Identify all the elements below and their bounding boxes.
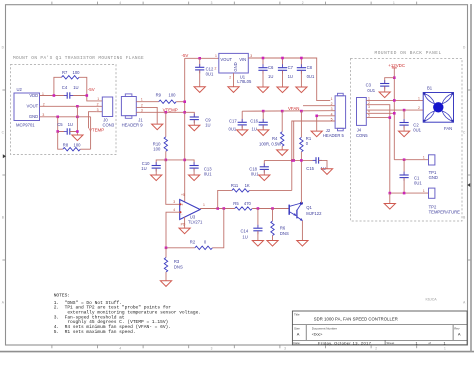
svg-text:1: 1 [331, 97, 333, 101]
svg-text:1U: 1U [252, 126, 257, 131]
wire R11 right leg to node [291, 160, 293, 190]
svg-text:2: 2 [97, 103, 99, 107]
svg-text:GND: GND [29, 114, 38, 119]
ground (C12) [194, 87, 205, 93]
regulator U1 L78L05 [219, 53, 252, 84]
svg-text:Size: Size [294, 327, 300, 331]
wire -5V vertical bus [184, 58, 186, 201]
resistor R7 [54, 76, 87, 96]
svg-text:C3: C3 [366, 82, 372, 87]
dashed box: back panel area [351, 58, 462, 221]
svg-text:MCP9701: MCP9701 [16, 123, 35, 128]
ground (C15) [321, 169, 332, 175]
svg-text:K6JCA: K6JCA [426, 298, 438, 302]
svg-text:1: 1 [423, 189, 425, 193]
capacitor C5 [58, 106, 78, 135]
ground (C16) [258, 130, 269, 136]
capacitor C12 [195, 58, 204, 86]
svg-text:Title: Title [294, 313, 300, 317]
transistor Q1 MJF122 [289, 202, 303, 221]
capacitor C2 [400, 110, 409, 131]
page edge shadow lines [0, 351, 474, 353]
svg-text:VOUT: VOUT [27, 104, 39, 109]
svg-text:R2: R2 [190, 240, 196, 245]
svg-text:3: 3 [97, 108, 99, 112]
svg-text:TLV271: TLV271 [188, 220, 203, 225]
ground (R6) [267, 241, 278, 247]
connector J2 HEADER 5 [323, 93, 346, 138]
ground (C10) [151, 175, 162, 181]
ground (back panel) [384, 204, 395, 210]
svg-text:VFAN: VFAN [288, 106, 299, 111]
svg-text:<Doc>: <Doc> [312, 332, 323, 336]
svg-text:Rev: Rev [454, 327, 460, 331]
junction C14 [257, 207, 260, 210]
svg-text:1: 1 [416, 341, 418, 345]
svg-text:Q1: Q1 [306, 205, 312, 210]
capacitor C7 [278, 58, 287, 87]
wire -5V rail left [185, 57, 219, 59]
capacitor C10 [152, 160, 166, 175]
svg-text:100: 100 [169, 92, 177, 97]
svg-text:B: B [2, 216, 4, 220]
svg-text:DNS: DNS [174, 264, 183, 269]
svg-text:B1: B1 [427, 86, 433, 91]
resistor R3 DNS [164, 248, 167, 281]
svg-text:R7: R7 [62, 70, 68, 75]
wire R10 column to op-amp input [166, 160, 180, 204]
capacitor C16 [259, 110, 268, 130]
svg-text:470: 470 [244, 201, 252, 206]
svg-text:4: 4 [173, 208, 175, 212]
svg-text:C6: C6 [268, 65, 274, 70]
svg-text:NOTES:: NOTES: [54, 293, 70, 299]
ground (C3) [379, 92, 390, 98]
resistor R11 feedback [218, 189, 292, 209]
ground (C6) [257, 87, 268, 93]
capacitor C1 [400, 160, 409, 193]
svg-text:of: of [429, 341, 432, 345]
svg-text:2: 2 [141, 104, 143, 108]
wire CON5 pin4 stub [366, 112, 394, 114]
svg-text:2: 2 [418, 106, 420, 110]
svg-text:2: 2 [215, 67, 217, 71]
svg-text:5. R1 sets maximum fan speed.: 5. R1 sets maximum fan speed. [54, 329, 136, 335]
wire op-amp inv input [166, 212, 180, 248]
ground (U3) [179, 228, 190, 234]
svg-text:C4: C4 [62, 85, 68, 90]
resistor R10 [164, 111, 167, 160]
connector J1 HEADER 9 [121, 94, 143, 127]
svg-text:-5V: -5V [88, 87, 95, 92]
svg-text:1U: 1U [288, 74, 293, 79]
IC U2 MCP9701 [14, 87, 40, 128]
capacitor C9 [185, 112, 199, 125]
svg-text:HEADER 5: HEADER 5 [323, 133, 345, 138]
svg-text:0U1: 0U1 [251, 172, 259, 177]
svg-text:CON5: CON5 [356, 133, 368, 138]
capacitor C8 [297, 58, 306, 87]
wire CON5 pin1 to fan pin1 [366, 99, 423, 101]
wire U2 pin1 row [40, 95, 68, 97]
notes text block [54, 293, 201, 336]
wire CON5 pin2 corner down [366, 105, 390, 193]
test point TP1 [429, 155, 438, 180]
ground (C13) [189, 175, 200, 181]
op-amp power-down pin stub + ground [184, 217, 186, 228]
wire TP1 row [394, 159, 428, 161]
svg-text:R6: R6 [280, 226, 286, 231]
svg-text:A: A [458, 331, 461, 336]
ground (C14) [252, 241, 263, 247]
svg-text:5: 5 [368, 114, 370, 118]
wire J1 pin1 to R9 [136, 101, 158, 103]
title block [292, 311, 467, 345]
connector J0 CON3 [102, 97, 115, 127]
svg-text:3: 3 [173, 200, 175, 204]
wire Q1 emitter to ground [301, 221, 303, 241]
svg-text:C5: C5 [57, 122, 63, 127]
svg-text:HEADER 9: HEADER 9 [122, 122, 144, 127]
capacitor C4 [64, 92, 73, 98]
wire J2 pin3 stub [330, 110, 335, 112]
svg-text:VIN: VIN [239, 57, 246, 62]
wire R10 junction row to bus [166, 159, 185, 161]
svg-text:VTEMP: VTEMP [89, 128, 104, 133]
fan B1 [423, 93, 453, 123]
resistor R2 [166, 209, 224, 250]
resistor R9 [159, 100, 177, 103]
junction R9/bus [183, 100, 186, 103]
svg-text:3: 3 [284, 347, 286, 351]
svg-text:GND: GND [233, 62, 238, 71]
svg-text:DNS: DNS [280, 231, 289, 236]
svg-text:0U1: 0U1 [414, 181, 422, 186]
ground (R4) [277, 150, 288, 156]
capacitor C13 [185, 160, 199, 175]
capacitor C14 [253, 209, 262, 241]
wire to bottom ground [389, 193, 391, 203]
svg-text:R8: R8 [63, 143, 69, 148]
svg-text:2: 2 [375, 347, 377, 351]
resistor R6 DNS [271, 209, 274, 241]
capacitor C17 [238, 111, 247, 130]
junction dots row1 [53, 94, 56, 97]
wire VFAN- node row [264, 159, 316, 161]
svg-text:C17: C17 [229, 118, 237, 123]
resistor R4 [281, 110, 284, 150]
svg-text:0U1: 0U1 [307, 74, 315, 79]
svg-text:3: 3 [141, 108, 143, 112]
ground (J1 pin2) [152, 124, 163, 130]
svg-text:1U: 1U [68, 122, 73, 127]
junction R6 [271, 207, 274, 210]
ground (C8) [296, 87, 307, 93]
svg-text:0U1: 0U1 [413, 128, 421, 133]
svg-text:+5: +5 [181, 193, 185, 197]
svg-text:1: 1 [97, 97, 99, 101]
svg-text:0U1: 0U1 [229, 126, 237, 131]
svg-text:C14: C14 [241, 228, 249, 233]
wire J2 pin4 to ground [317, 116, 335, 131]
svg-text:3: 3 [211, 347, 213, 351]
svg-text:+12VDC: +12VDC [388, 63, 405, 68]
svg-text:Date:: Date: [293, 341, 300, 345]
svg-text:A: A [297, 331, 300, 336]
svg-text:1: 1 [203, 203, 205, 207]
wire U2 pin2 row to CON3 pin2 [40, 105, 103, 107]
svg-text:U3: U3 [190, 214, 196, 219]
svg-text:1U: 1U [205, 122, 210, 127]
svg-text:VOUT: VOUT [220, 57, 232, 62]
svg-text:CON3: CON3 [103, 122, 115, 127]
svg-text:100: 100 [73, 70, 81, 75]
ground (Q1) [297, 241, 308, 247]
svg-text:1U: 1U [242, 234, 247, 239]
svg-text:U2: U2 [17, 87, 23, 92]
resistor R5 [235, 207, 253, 210]
svg-text:100: 100 [153, 146, 161, 151]
ground (C18) [259, 175, 270, 181]
op-amp U3 TLV271 [180, 200, 203, 225]
svg-text:R9: R9 [156, 92, 162, 97]
wire J1 pin3 VTEMP row to bus [136, 111, 184, 113]
capacitor C18 [260, 160, 269, 174]
junction VTEMP/bus [183, 111, 186, 114]
svg-text:3: 3 [211, 1, 213, 5]
svg-text:Sheet: Sheet [386, 341, 394, 345]
wire CON5 pin5 stub [366, 117, 390, 119]
svg-text:R4: R4 [272, 136, 278, 141]
capacitor C3 [380, 78, 394, 92]
svg-text:4: 4 [119, 1, 121, 5]
ground (J2) [311, 131, 322, 137]
svg-text:L78L05: L78L05 [237, 79, 252, 84]
svg-text:2: 2 [302, 1, 304, 5]
wire U1 GND pin to ground [233, 73, 235, 87]
connector J4 CON5 [356, 98, 368, 138]
svg-text:C16: C16 [250, 118, 258, 123]
svg-text:PD: PD [181, 223, 186, 227]
svg-text:100R, 0.5W: 100R, 0.5W [259, 142, 281, 147]
dashed box: sensor mounting area [11, 65, 117, 155]
wire J2 pin5 to VFAN- node [292, 121, 335, 160]
svg-text:1: 1 [215, 54, 217, 58]
resistor R1 [300, 110, 303, 161]
svg-text:1: 1 [418, 96, 420, 100]
svg-text:MOUNT ON PA'S Q1 TRANSISTOR MO: MOUNT ON PA'S Q1 TRANSISTOR MOUNTING FLA… [13, 56, 144, 61]
svg-text:1: 1 [393, 1, 395, 5]
svg-text:C8: C8 [307, 65, 313, 70]
ground (C2) [399, 131, 410, 137]
ground (U1) [228, 87, 239, 93]
wire J2 pin2 feeder [303, 105, 335, 107]
wire +12VDC vertical [393, 68, 395, 160]
wire rail U1 VIN to J2 pin1 [248, 58, 330, 101]
svg-text:-5V: -5V [182, 53, 189, 58]
svg-text:1U: 1U [73, 85, 78, 90]
capacitor C15 [313, 157, 327, 168]
svg-text:MOUNTED ON BACK PANEL: MOUNTED ON BACK PANEL [375, 51, 442, 56]
svg-text:B: B [463, 216, 465, 220]
svg-text:GND: GND [429, 175, 438, 180]
wire Q1 collector [300, 160, 302, 203]
wire J1 pin2 to ground [136, 107, 157, 124]
wire jog to CON3 pin1 [87, 96, 103, 101]
capacitor C6 [258, 58, 267, 87]
wire op-amp output row [200, 208, 235, 210]
svg-text:R11: R11 [231, 183, 239, 188]
resistor R8 [58, 132, 91, 151]
svg-text:C15: C15 [306, 166, 314, 171]
wire CON5 pin3 to fan pin2 [366, 109, 423, 111]
ground (C7) [277, 87, 288, 93]
junction C12 [198, 57, 201, 60]
svg-text:4: 4 [119, 347, 121, 351]
svg-text:3: 3 [250, 54, 252, 58]
svg-text:TEMPERATURE: TEMPERATURE [429, 210, 461, 215]
ground (R3) [160, 281, 171, 287]
svg-text:1: 1 [444, 341, 446, 345]
svg-text:VDD: VDD [29, 93, 38, 98]
svg-text:1U: 1U [268, 74, 273, 79]
wire R8 right leg [90, 117, 92, 149]
svg-text:100: 100 [74, 143, 82, 148]
svg-text:0U1: 0U1 [204, 171, 212, 176]
wire U2 pin3 row [40, 116, 91, 118]
svg-text:1U: 1U [141, 166, 146, 171]
svg-text:-: - [181, 213, 182, 217]
test point TP2 [429, 188, 461, 214]
svg-text:R5: R5 [233, 201, 239, 206]
ground (C17) [237, 130, 248, 136]
svg-text:SDR 1000 PA, FAN SPEED CONTROL: SDR 1000 PA, FAN SPEED CONTROLLER [314, 317, 398, 322]
svg-text:FAN: FAN [444, 126, 452, 131]
wire CON3 pin3 VTEMP drop [89, 112, 97, 129]
svg-text:0U1: 0U1 [206, 71, 214, 76]
svg-text:1K: 1K [245, 183, 250, 188]
svg-text:0U1: 0U1 [367, 88, 375, 93]
svg-text:Document Number: Document Number [312, 327, 337, 331]
svg-text:1: 1 [444, 347, 446, 351]
ground (C9) [189, 125, 200, 131]
svg-text:2: 2 [229, 76, 231, 80]
svg-text:+: + [181, 203, 183, 207]
wire VFAN row [242, 110, 330, 113]
svg-text:R3: R3 [174, 259, 180, 264]
ground (C5) [72, 135, 83, 141]
svg-text:Friday, October 13, 2017: Friday, October 13, 2017 [318, 340, 372, 345]
svg-text:MJF122: MJF122 [306, 211, 322, 216]
svg-text:1: 1 [141, 98, 143, 102]
wire TP2 row [390, 192, 429, 194]
svg-text:1: 1 [423, 156, 425, 160]
svg-text:C7: C7 [288, 65, 294, 70]
